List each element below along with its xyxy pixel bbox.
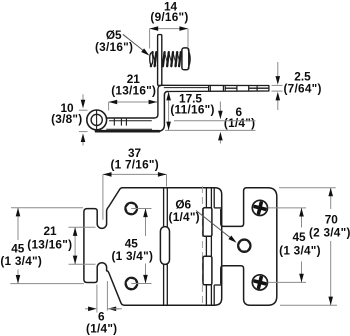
svg-text:(1/4"): (1/4") [86, 322, 117, 336]
svg-text:(1 3/4"): (1 3/4") [0, 254, 42, 268]
svg-text:(1 7/16"): (1 7/16") [110, 158, 159, 172]
dim 6 bottom view ext lines [96, 285, 98, 313]
knuckle curl circle [87, 110, 107, 130]
mounting tab of bracket (vertical plate) [158, 35, 162, 86]
dim 37 line and arrows [103, 173, 167, 175]
dim 45 left ext lines [11, 207, 83, 209]
dim 45 left line [17, 208, 19, 240]
hinge axis dashed centerline [201, 186, 203, 307]
svg-text:(9/16"): (9/16") [150, 10, 188, 24]
dim 2.5 ext lines and arrows [272, 84, 283, 86]
leader for Ø6 [196, 211, 235, 242]
knuckle column lines [205, 188, 207, 306]
mounting hole hex upper [126, 203, 137, 214]
strip hole tick marks [208, 85, 210, 91]
frame wing plate outline [84, 188, 222, 306]
screw S1 head [182, 48, 189, 70]
knuckle curl upper rect [203, 208, 212, 237]
svg-text:(1/4"): (1/4") [169, 210, 200, 224]
svg-text:(13/16"): (13/16") [27, 237, 72, 251]
svg-text:(1/4"): (1/4") [224, 116, 255, 130]
dim 70 ext lines [279, 187, 336, 189]
svg-text:(3/16"): (3/16") [95, 40, 133, 54]
door wing plate outline [221, 188, 277, 306]
dim 6 top view ext lines and arrows [174, 120, 256, 122]
dim 14 extension lines [149, 29, 151, 49]
knuckle bottom segment lines [213, 285, 215, 305]
svg-text:21: 21 [43, 224, 57, 238]
strip darker segments [225, 87, 236, 89]
center capsule on bend line [160, 227, 169, 265]
arm bottom thick edge curling to riser right [96, 130, 159, 133]
mounting hole hex lower [126, 278, 137, 289]
dim 21 bottom view line [74, 227, 76, 264]
dim 70 line [330, 188, 332, 209]
dim 37 extension lines [102, 174, 104, 219]
dim 45 right line [301, 208, 303, 228]
frame wing strip (thin horizontal band) [162, 85, 269, 91]
svg-text:(11/16"): (11/16") [170, 102, 214, 116]
screw S1 threads [151, 52, 153, 66]
svg-text:(1 3/4"): (1 3/4") [111, 249, 153, 263]
leader for Ø5 to screw thread [123, 34, 148, 54]
arm hole ticks [113, 119, 115, 126]
screw S1 tip [150, 53, 153, 65]
dim 21 bottom view ext lines [69, 226, 96, 228]
knuckle top segment lines [213, 188, 215, 208]
svg-text:(7/64"): (7/64") [284, 81, 322, 95]
svg-text:(3/8"): (3/8") [51, 112, 82, 126]
door hole Ø6 hex [238, 240, 250, 252]
svg-text:(2 3/4"): (2 3/4") [309, 226, 350, 240]
svg-text:(1 3/4"): (1 3/4") [279, 243, 321, 257]
knuckle curl lower rect [203, 256, 212, 285]
dim 45 middle leaders and line [131, 208, 151, 210]
dim 17.5 line [168, 92, 170, 130]
dim 45 right ext lines [268, 207, 306, 209]
bracket Z-profile: bottom arm, riser, top bend [106, 85, 162, 118]
dim 21 line top view [109, 101, 158, 103]
dim 14 line and arrows [150, 28, 188, 30]
phillips screw lower [252, 275, 267, 290]
svg-text:70: 70 [325, 212, 339, 226]
svg-text:(13/16"): (13/16") [111, 84, 156, 98]
dim 10 arrows and ticks [82, 94, 84, 100]
svg-text:45: 45 [292, 230, 306, 244]
dim 6 bottom view arrows [85, 308, 89, 310]
bend lines of frame wing [163, 188, 165, 306]
phillips screw upper [252, 200, 267, 215]
